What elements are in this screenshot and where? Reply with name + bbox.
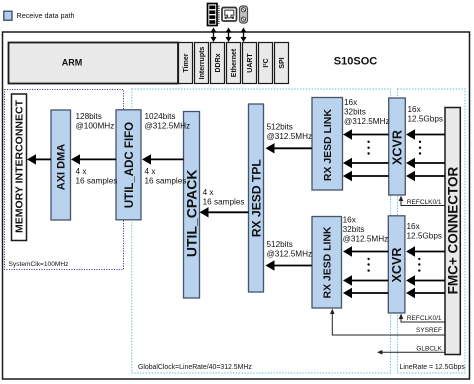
svg-text:@312.5MHz: @312.5MHz (343, 235, 389, 244)
svg-text:RX JESD LINK: RX JESD LINK (323, 109, 334, 181)
svg-text:512bits: 512bits (267, 240, 293, 249)
svg-text:Timer: Timer (183, 53, 190, 72)
svg-text:ARM: ARM (62, 57, 83, 67)
svg-text:XCVR: XCVR (390, 248, 404, 283)
svg-text:Interrupts: Interrupts (199, 47, 206, 80)
svg-text:32bits: 32bits (343, 225, 365, 234)
svg-text:SPI: SPI (279, 57, 286, 68)
svg-text:GlobalClock=LineRate/40=312.5M: GlobalClock=LineRate/40=312.5MHz (138, 364, 252, 371)
svg-text:@312.5MHz: @312.5MHz (145, 122, 191, 131)
svg-text:REFCLK0/1: REFCLK0/1 (407, 315, 442, 322)
svg-text:16x: 16x (408, 105, 421, 114)
svg-text:XCVR: XCVR (391, 130, 405, 165)
svg-text:16x: 16x (343, 216, 356, 225)
svg-text:Receive data path: Receive data path (17, 11, 75, 20)
svg-text:RX JESD TPL: RX JESD TPL (249, 159, 263, 238)
svg-text:1024bits: 1024bits (145, 112, 176, 121)
svg-text:UART: UART (247, 53, 254, 73)
svg-text:FMC+ CONNECTOR: FMC+ CONNECTOR (445, 166, 460, 294)
svg-text:@312.5MHz: @312.5MHz (344, 117, 390, 126)
svg-text:S10SOC: S10SOC (334, 56, 377, 68)
svg-text:16 samples: 16 samples (203, 198, 245, 207)
svg-text:4 x: 4 x (203, 188, 214, 197)
svg-text:16 samples: 16 samples (76, 177, 118, 186)
svg-text:128bits: 128bits (76, 112, 102, 121)
svg-text:RX JESD LINK: RX JESD LINK (322, 226, 333, 298)
svg-text:MEMORY INTERCONNECT: MEMORY INTERCONNECT (14, 99, 26, 233)
svg-text:SYSREF: SYSREF (416, 327, 442, 334)
svg-text:16 samples: 16 samples (145, 177, 187, 186)
svg-text:UTIL_ADC FIFO: UTIL_ADC FIFO (124, 122, 136, 208)
svg-text:32bits: 32bits (344, 108, 366, 117)
svg-text:Ethernet: Ethernet (231, 48, 238, 77)
svg-text:DDRx: DDRx (215, 53, 222, 72)
svg-text:16x: 16x (407, 222, 420, 231)
svg-text:12.5Gbps: 12.5Gbps (407, 232, 443, 241)
svg-text:@100MHz: @100MHz (76, 122, 115, 131)
svg-text:REFCLK0/1: REFCLK0/1 (407, 199, 442, 206)
svg-text:512bits: 512bits (267, 123, 293, 132)
svg-text:4 x: 4 x (145, 167, 156, 176)
svg-text:SystemClk=100MHz: SystemClk=100MHz (9, 261, 69, 268)
svg-text:12.5Gbps: 12.5Gbps (408, 115, 444, 124)
svg-text:16x: 16x (344, 98, 357, 107)
svg-text:4 x: 4 x (76, 167, 87, 176)
svg-text:GLBCLK: GLBCLK (416, 345, 442, 352)
svg-text:LineRate = 12.5Gbps: LineRate = 12.5Gbps (400, 364, 466, 371)
svg-text:@312.5MHz: @312.5MHz (267, 250, 313, 259)
svg-text:@312.5MHz: @312.5MHz (267, 132, 313, 141)
svg-text:I²C: I²C (263, 58, 270, 67)
svg-text:AXI DMA: AXI DMA (56, 144, 68, 191)
